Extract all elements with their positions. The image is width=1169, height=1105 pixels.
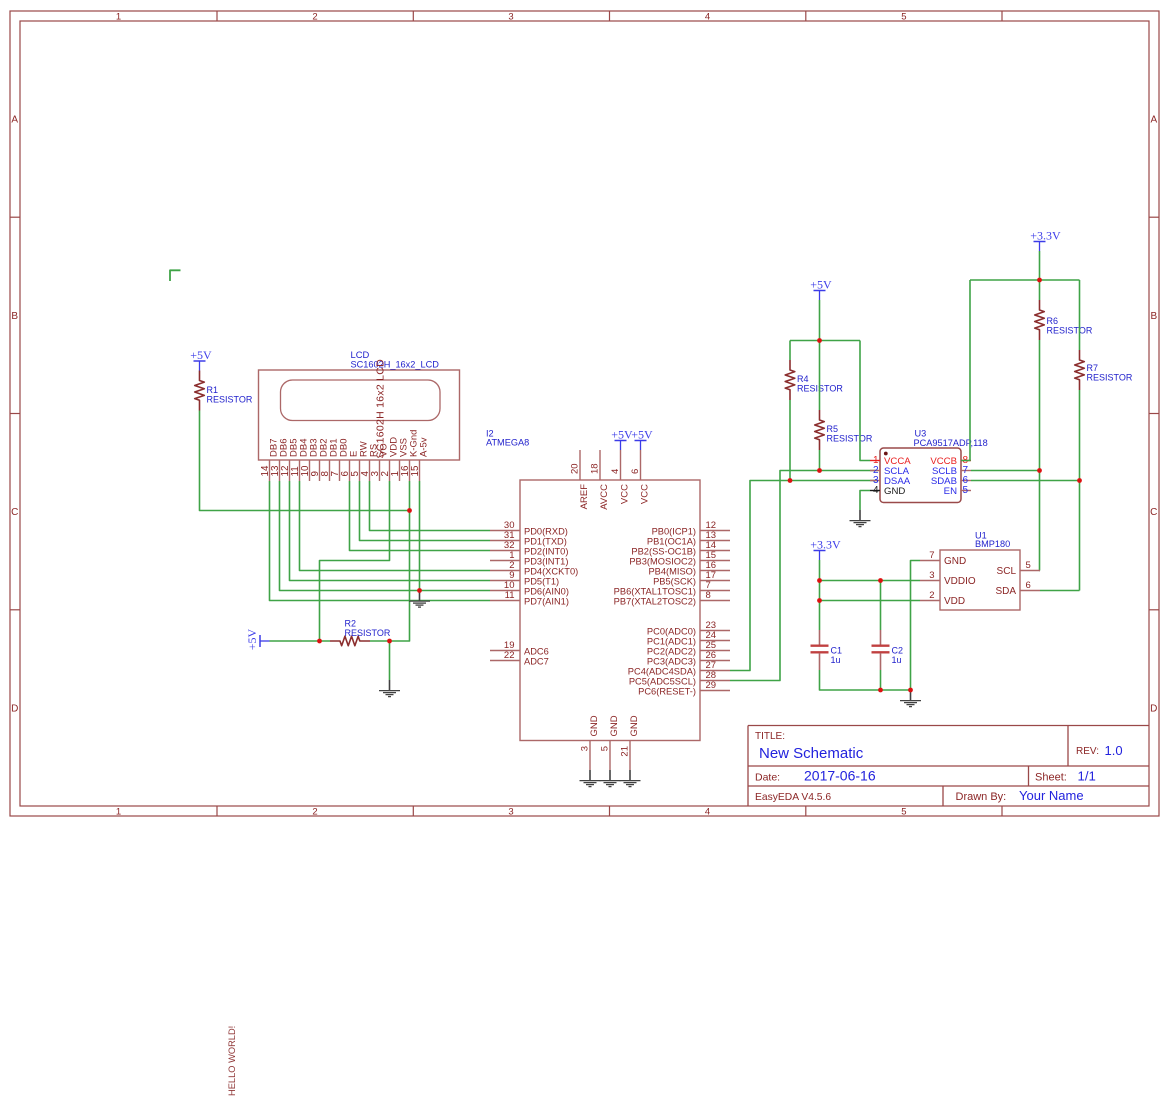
U3 pin 5 EN [961, 490, 971, 492]
node +3.3V rail junction [1037, 278, 1042, 283]
svg-text:B: B [1150, 311, 1157, 322]
wire rail to R7 top [1079, 280, 1081, 350]
svg-text:R6: R6 [1047, 316, 1059, 326]
LCD SC1602H_16x2_LCD display module [259, 349, 460, 481]
svg-text:PC6(RESET-): PC6(RESET-) [638, 686, 696, 696]
U3 pin 4 GND [870, 490, 880, 492]
resistor R2 [330, 619, 391, 646]
svg-text:3: 3 [508, 807, 513, 818]
wire C1 bottom to ground rail [820, 670, 911, 690]
wire +3.3V flag to rail [1039, 251, 1041, 280]
svg-text:VDD: VDD [944, 596, 965, 607]
wire +5V flag down to rail [819, 300, 821, 341]
svg-text:PB1(OC1A): PB1(OC1A) [647, 536, 696, 546]
ground under I2 pin at x=610 [600, 770, 621, 787]
node R2 left junction [317, 639, 322, 644]
LCD pin 14 DB7 [269, 460, 271, 481]
I2 pin 30 PD0(RXD) [490, 530, 520, 532]
I2 pin 26 PC3(ADC3) [700, 660, 730, 662]
node R5 / SCLA junction [817, 468, 822, 473]
U1 pin 5 SCL [1020, 570, 1040, 572]
node A-5v / PD6 junction [417, 588, 422, 593]
IC I2 ATMEGA8 microcontroller [486, 429, 730, 771]
svg-text:New Schematic: New Schematic [759, 745, 864, 762]
LCD pin 9 DB2 [319, 460, 321, 481]
svg-text:PD6(AIN0): PD6(AIN0) [524, 586, 569, 596]
svg-text:GND: GND [589, 715, 600, 736]
I2 pin 5 GND [609, 741, 611, 771]
svg-text:PB6(XTAL1TOSC1): PB6(XTAL1TOSC1) [614, 586, 696, 596]
svg-text:GND: GND [629, 715, 640, 736]
svg-text:5: 5 [600, 746, 611, 751]
LCD pin 8 DB1 [329, 460, 331, 481]
node +3.3V / VDD junction [817, 598, 822, 603]
svg-text:3: 3 [580, 746, 591, 751]
I2 pin 22 ADC7 [490, 660, 520, 662]
svg-text:A-5v: A-5v [419, 437, 430, 457]
I2 pin 2 PD4(XCKT0) [490, 570, 520, 572]
svg-text:R5: R5 [827, 424, 839, 434]
svg-text:2: 2 [312, 807, 317, 818]
wire R5 bottom to SCLA net [819, 450, 821, 471]
svg-text:1u: 1u [892, 655, 902, 665]
svg-text:SCL: SCL [997, 566, 1017, 577]
ground below A-5v junction [409, 591, 430, 608]
svg-text:U3: U3 [915, 428, 927, 438]
wire DB5 to PD5 [290, 481, 491, 581]
wire RW to PD1 [360, 481, 491, 541]
LCD pin 5 RW [359, 460, 361, 481]
I2 pin 32 PD2(INT0) [490, 550, 520, 552]
svg-text:RESISTOR: RESISTOR [1047, 326, 1093, 336]
ground below U3 [850, 510, 871, 527]
I2 pin 20 AREF [579, 450, 581, 480]
I2 pin 28 PC5(ADC5SCL) [700, 680, 730, 682]
+3.3V power flag top right [1030, 228, 1061, 251]
U1 pin 6 SDA [1020, 590, 1040, 592]
svg-text:4: 4 [873, 485, 879, 496]
I2 pin 10 PD6(AIN0) [490, 590, 520, 592]
LCD pin 11 DB4 [299, 460, 301, 481]
svg-text:AREF: AREF [579, 484, 590, 510]
svg-text:6: 6 [630, 469, 641, 474]
svg-text:PD1(TXD): PD1(TXD) [524, 536, 567, 546]
ground below C1/C2 rail [900, 690, 921, 707]
I2 pin 18 AVCC [599, 450, 601, 480]
node C2 / VDDIO junction [878, 578, 883, 583]
LCD pin 6 E [349, 460, 351, 481]
wire RS to PD0 [370, 481, 491, 531]
wire VDD staircase to R2 left [320, 481, 390, 641]
svg-text:PD3(INT1): PD3(INT1) [524, 556, 568, 566]
wire R6 bottom to U1 SCL [1039, 340, 1042, 571]
svg-text:PB2(SS-OC1B): PB2(SS-OC1B) [631, 546, 696, 556]
title block [748, 725, 1149, 727]
wire E to PD2 [350, 481, 491, 551]
svg-text:22: 22 [504, 650, 515, 661]
origin marker [170, 270, 181, 281]
I2 pin 7 PB6(XTAL1TOSC1) [700, 590, 730, 592]
svg-text:4: 4 [705, 807, 710, 818]
svg-text:R4: R4 [797, 374, 809, 384]
svg-text:C: C [1150, 507, 1157, 518]
LCD pin 2 VDD [389, 460, 391, 481]
svg-text:D: D [11, 703, 18, 714]
svg-text:VDDIO: VDDIO [944, 576, 976, 587]
svg-text:C: C [11, 507, 18, 518]
svg-text:PC0(ADC0): PC0(ADC0) [647, 626, 696, 636]
svg-text:EasyEDA V4.5.6: EasyEDA V4.5.6 [755, 792, 831, 803]
I2 pin 29 PC6(RESET-) [700, 690, 730, 692]
svg-text:4: 4 [610, 469, 621, 474]
wire DB7 to PD7 [270, 481, 491, 601]
capacitor C1 [811, 630, 843, 670]
svg-text:R1: R1 [207, 385, 219, 395]
I2 pin 12 PB0(ICP1) [700, 530, 730, 532]
svg-text:GND: GND [884, 486, 905, 497]
svg-text:Drawn By:: Drawn By: [956, 791, 1007, 803]
+5V power flag (I2 VCC pin 6) [631, 427, 653, 450]
svg-text:1/1: 1/1 [1078, 769, 1096, 784]
I2 pin 3 GND [589, 741, 591, 771]
wire DB6 to PD6 [280, 481, 491, 591]
svg-text:PC2(ADC2): PC2(ADC2) [647, 646, 696, 656]
svg-text:PC5(ADC5SCL): PC5(ADC5SCL) [629, 676, 696, 686]
svg-text:3: 3 [508, 12, 513, 23]
U3 pin 2 SCLA [870, 470, 880, 472]
wire rail to R4 top [789, 341, 791, 361]
sheet border frame [10, 11, 1159, 816]
I2 pin 13 PB1(OC1A) [700, 540, 730, 542]
resistor R6 [1035, 300, 1093, 340]
node ground rail junction [908, 688, 913, 693]
wire K-Gnd down to R2 right [390, 481, 410, 641]
svg-text:4: 4 [705, 12, 710, 23]
wire VDDIO net [820, 580, 921, 582]
svg-text:PD5(T1): PD5(T1) [524, 576, 559, 586]
svg-text:C2: C2 [892, 646, 904, 656]
svg-text:C1: C1 [831, 646, 843, 656]
I2 pin 23 PC0(ADC0) [700, 630, 730, 632]
svg-text:PB4(MISO): PB4(MISO) [648, 566, 696, 576]
resistor R4 [785, 360, 843, 400]
svg-text:GND: GND [944, 556, 966, 567]
I2 pin 16 PB4(MISO) [700, 570, 730, 572]
svg-text:GND: GND [609, 715, 620, 736]
svg-text:SDA: SDA [995, 586, 1016, 597]
wire U3 DSAA to ATMEGA PC4 [730, 481, 878, 671]
svg-text:+3.3V: +3.3V [810, 537, 841, 551]
U3 pin 7 SCLB [961, 470, 971, 472]
wire U1 GND down to ground rail [911, 561, 921, 691]
+5V power flag (I2 VCC pin 4) [611, 427, 633, 450]
wire +3.3V rail [970, 279, 1080, 281]
wire rail to R6 top [1039, 280, 1041, 300]
LCD pin 1 VSS [399, 460, 401, 481]
LCD pin 7 DB0 [339, 460, 341, 481]
wire A-5v down to PD6 junction [419, 481, 421, 591]
svg-text:BMP180: BMP180 [975, 539, 1010, 549]
+5V power flag above R4/R5 rail [810, 277, 832, 300]
node +3.3V / VDDIO junction [817, 578, 822, 583]
node C2 / ground rail junction [878, 688, 883, 693]
+3.3V power flag above C1 [810, 537, 841, 560]
node R2 right junction [387, 639, 392, 644]
svg-text:A: A [11, 115, 18, 126]
svg-text:HELLO WORLD!: HELLO WORLD! [227, 1026, 237, 1096]
svg-text:2: 2 [929, 590, 934, 601]
svg-text:R2: R2 [345, 619, 357, 629]
wire R1 to K-Gnd net [200, 411, 410, 511]
I2 pin 19 ADC6 [490, 650, 520, 652]
I2 pin 21 GND [629, 741, 631, 771]
I2 pin 15 PB3(MOSIOC2) [700, 560, 730, 562]
U1 pin 7 GND [920, 560, 940, 562]
svg-text:+5V: +5V [190, 348, 212, 362]
LCD pin 12 DB5 [289, 460, 291, 481]
I2 pin 9 PD5(T1) [490, 580, 520, 582]
svg-text:PD0(RXD): PD0(RXD) [524, 526, 568, 536]
svg-text:+5V: +5V [245, 629, 259, 651]
svg-text:1u: 1u [831, 655, 841, 665]
svg-text:PC3(ADC3): PC3(ADC3) [647, 656, 696, 666]
wire R2 right to ground [370, 641, 390, 680]
svg-text:+5V: +5V [611, 427, 633, 441]
svg-text:5: 5 [901, 807, 906, 818]
U3 pin 1 VCCA [870, 460, 880, 462]
wire +5V flag to R2 left junction [270, 640, 331, 642]
svg-text:PB0(ICP1): PB0(ICP1) [652, 526, 696, 536]
svg-text:D: D [1150, 703, 1157, 714]
svg-text:29: 29 [706, 680, 717, 691]
resistor R7 [1075, 350, 1133, 390]
U1 pin 2 VDD [920, 600, 940, 602]
svg-text:1.0: 1.0 [1105, 743, 1123, 758]
svg-text:1: 1 [116, 12, 121, 23]
wire U3 SCLB to R6 line [971, 470, 1040, 472]
LCD pin 10 DB3 [309, 460, 311, 481]
svg-text:TITLE:: TITLE: [755, 731, 785, 742]
svg-text:PCA9517ADP,118: PCA9517ADP,118 [914, 438, 988, 448]
node SCLB / R6 junction [1037, 468, 1042, 473]
LCD pin 4 RS [369, 460, 371, 481]
svg-text:REV:: REV: [1076, 746, 1099, 757]
ground below R2 [379, 680, 400, 697]
I2 pin 24 PC1(ADC1) [700, 640, 730, 642]
svg-text:VCC: VCC [640, 484, 651, 504]
I2 pin 14 PB2(SS-OC1B) [700, 550, 730, 552]
svg-text:Sheet:: Sheet: [1035, 772, 1067, 784]
svg-text:PB7(XTAL2TOSC2): PB7(XTAL2TOSC2) [614, 596, 696, 606]
I2 pin 25 PC2(ADC2) [700, 650, 730, 652]
svg-text:VCC: VCC [620, 484, 631, 504]
node SDAB / R7 junction [1077, 478, 1082, 483]
svg-text:2017-06-16: 2017-06-16 [804, 768, 876, 784]
I2 pin 31 PD1(TXD) [490, 540, 520, 542]
node K-Gnd / R1 junction [407, 508, 412, 513]
svg-text:PD2(INT0): PD2(INT0) [524, 546, 568, 556]
svg-text:A: A [1150, 115, 1157, 126]
LCD pin 13 DB6 [279, 460, 281, 481]
svg-text:PC1(ADC1): PC1(ADC1) [647, 636, 696, 646]
LCD pin 16 K-Gnd [409, 460, 411, 481]
wire C2 top [880, 581, 882, 631]
wire R4 bottom to DSAA net [789, 400, 791, 481]
wire +3.3V down through VDDIO/VDD to C1 [819, 560, 821, 630]
svg-text:RESISTOR: RESISTOR [827, 434, 873, 444]
svg-text:Date:: Date: [755, 772, 780, 784]
I2 pin 11 PD7(AIN1) [490, 600, 520, 602]
wire VDD net [820, 600, 921, 602]
I2 pin 8 PB7(XTAL2TOSC2) [700, 600, 730, 602]
svg-text:PD4(XCKT0): PD4(XCKT0) [524, 566, 578, 576]
wire R7 bottom to SDA net [1079, 390, 1081, 591]
svg-text:+5V: +5V [631, 427, 653, 441]
svg-text:PD7(AIN1): PD7(AIN1) [524, 596, 569, 606]
svg-text:AVCC: AVCC [599, 484, 610, 510]
wire DB4 to PD4 [300, 481, 491, 571]
svg-text:7: 7 [929, 550, 934, 561]
IC U1 BMP180 pressure sensor [920, 531, 1040, 610]
svg-text:PB5(SCK): PB5(SCK) [653, 576, 696, 586]
U3 pin 8 VCCB [961, 460, 971, 462]
svg-text:ADC6: ADC6 [524, 646, 549, 656]
svg-text:18: 18 [590, 463, 601, 474]
wire rail to R5 top [819, 341, 821, 411]
U3 pin 6 SDAB [961, 480, 971, 482]
node +5V rail junction [817, 338, 822, 343]
capacitor C2 [872, 630, 904, 670]
wire rail down to U3 VCCA [860, 341, 870, 461]
svg-text:1: 1 [116, 807, 121, 818]
svg-text:Your Name: Your Name [1019, 788, 1084, 803]
wire SDA net to U1 SDA [1040, 590, 1080, 592]
svg-text:+5V: +5V [810, 277, 832, 291]
svg-text:6: 6 [1026, 580, 1031, 591]
U3 pin 3 DSAA [870, 480, 880, 482]
wire +5V rail [790, 340, 860, 342]
svg-text:5: 5 [963, 485, 969, 496]
wire C2 bottom [880, 670, 882, 690]
I2 pin 6 VCC [640, 450, 642, 480]
ground under I2 pin at x=590 [580, 770, 601, 787]
svg-text:3: 3 [929, 570, 934, 581]
+5V power flag left of R2 [245, 629, 270, 651]
svg-text:B: B [11, 311, 18, 322]
svg-text:RESISTOR: RESISTOR [207, 395, 253, 405]
svg-text:PB3(MOSIOC2): PB3(MOSIOC2) [629, 556, 696, 566]
svg-text:ATMEGA8: ATMEGA8 [486, 437, 529, 447]
ground under I2 pin at x=630 [620, 770, 641, 787]
svg-text:R7: R7 [1087, 363, 1099, 373]
LCD pin 15 A-5v [419, 460, 421, 481]
IC U3 PCA9517ADP,118 i2c repeater [870, 428, 988, 502]
I2 pin 27 PC4(ADC4SDA) [700, 670, 730, 672]
svg-text:11: 11 [505, 590, 515, 601]
svg-text:15: 15 [410, 465, 421, 476]
svg-text:20: 20 [570, 463, 581, 474]
svg-text:5: 5 [901, 12, 906, 23]
resistor R1 [195, 371, 253, 411]
U1 pin 3 VDDIO [920, 580, 940, 582]
svg-text:21: 21 [620, 746, 631, 757]
LCD pin 3 VO [379, 460, 381, 481]
svg-text:+3.3V: +3.3V [1030, 228, 1061, 242]
svg-text:PC4(ADC4SDA): PC4(ADC4SDA) [628, 666, 696, 676]
wire U3 GND pin to ground [860, 491, 870, 511]
svg-text:2: 2 [312, 12, 317, 23]
svg-text:SC1602H_16x2_LCD: SC1602H_16x2_LCD [351, 360, 440, 370]
svg-text:ADC7: ADC7 [524, 656, 549, 666]
wire U3 SDAB to R7 line [971, 480, 1080, 482]
resistor R5 [815, 410, 873, 450]
I2 pin 1 PD3(INT1) [490, 560, 520, 562]
I2 pin 17 PB5(SCK) [700, 580, 730, 582]
svg-text:8: 8 [706, 590, 711, 601]
svg-text:RESISTOR: RESISTOR [345, 628, 391, 638]
node R4 / DSAA junction [788, 478, 793, 483]
wire U3 SCLA to ATMEGA PC5 [730, 471, 878, 681]
wire rail down to U3 VCCB [961, 280, 970, 461]
svg-text:5: 5 [1026, 560, 1031, 571]
svg-text:EN: EN [944, 486, 957, 497]
svg-text:RESISTOR: RESISTOR [1087, 373, 1133, 383]
+5V power flag above R1 [190, 348, 212, 371]
I2 pin 4 VCC [620, 450, 622, 480]
